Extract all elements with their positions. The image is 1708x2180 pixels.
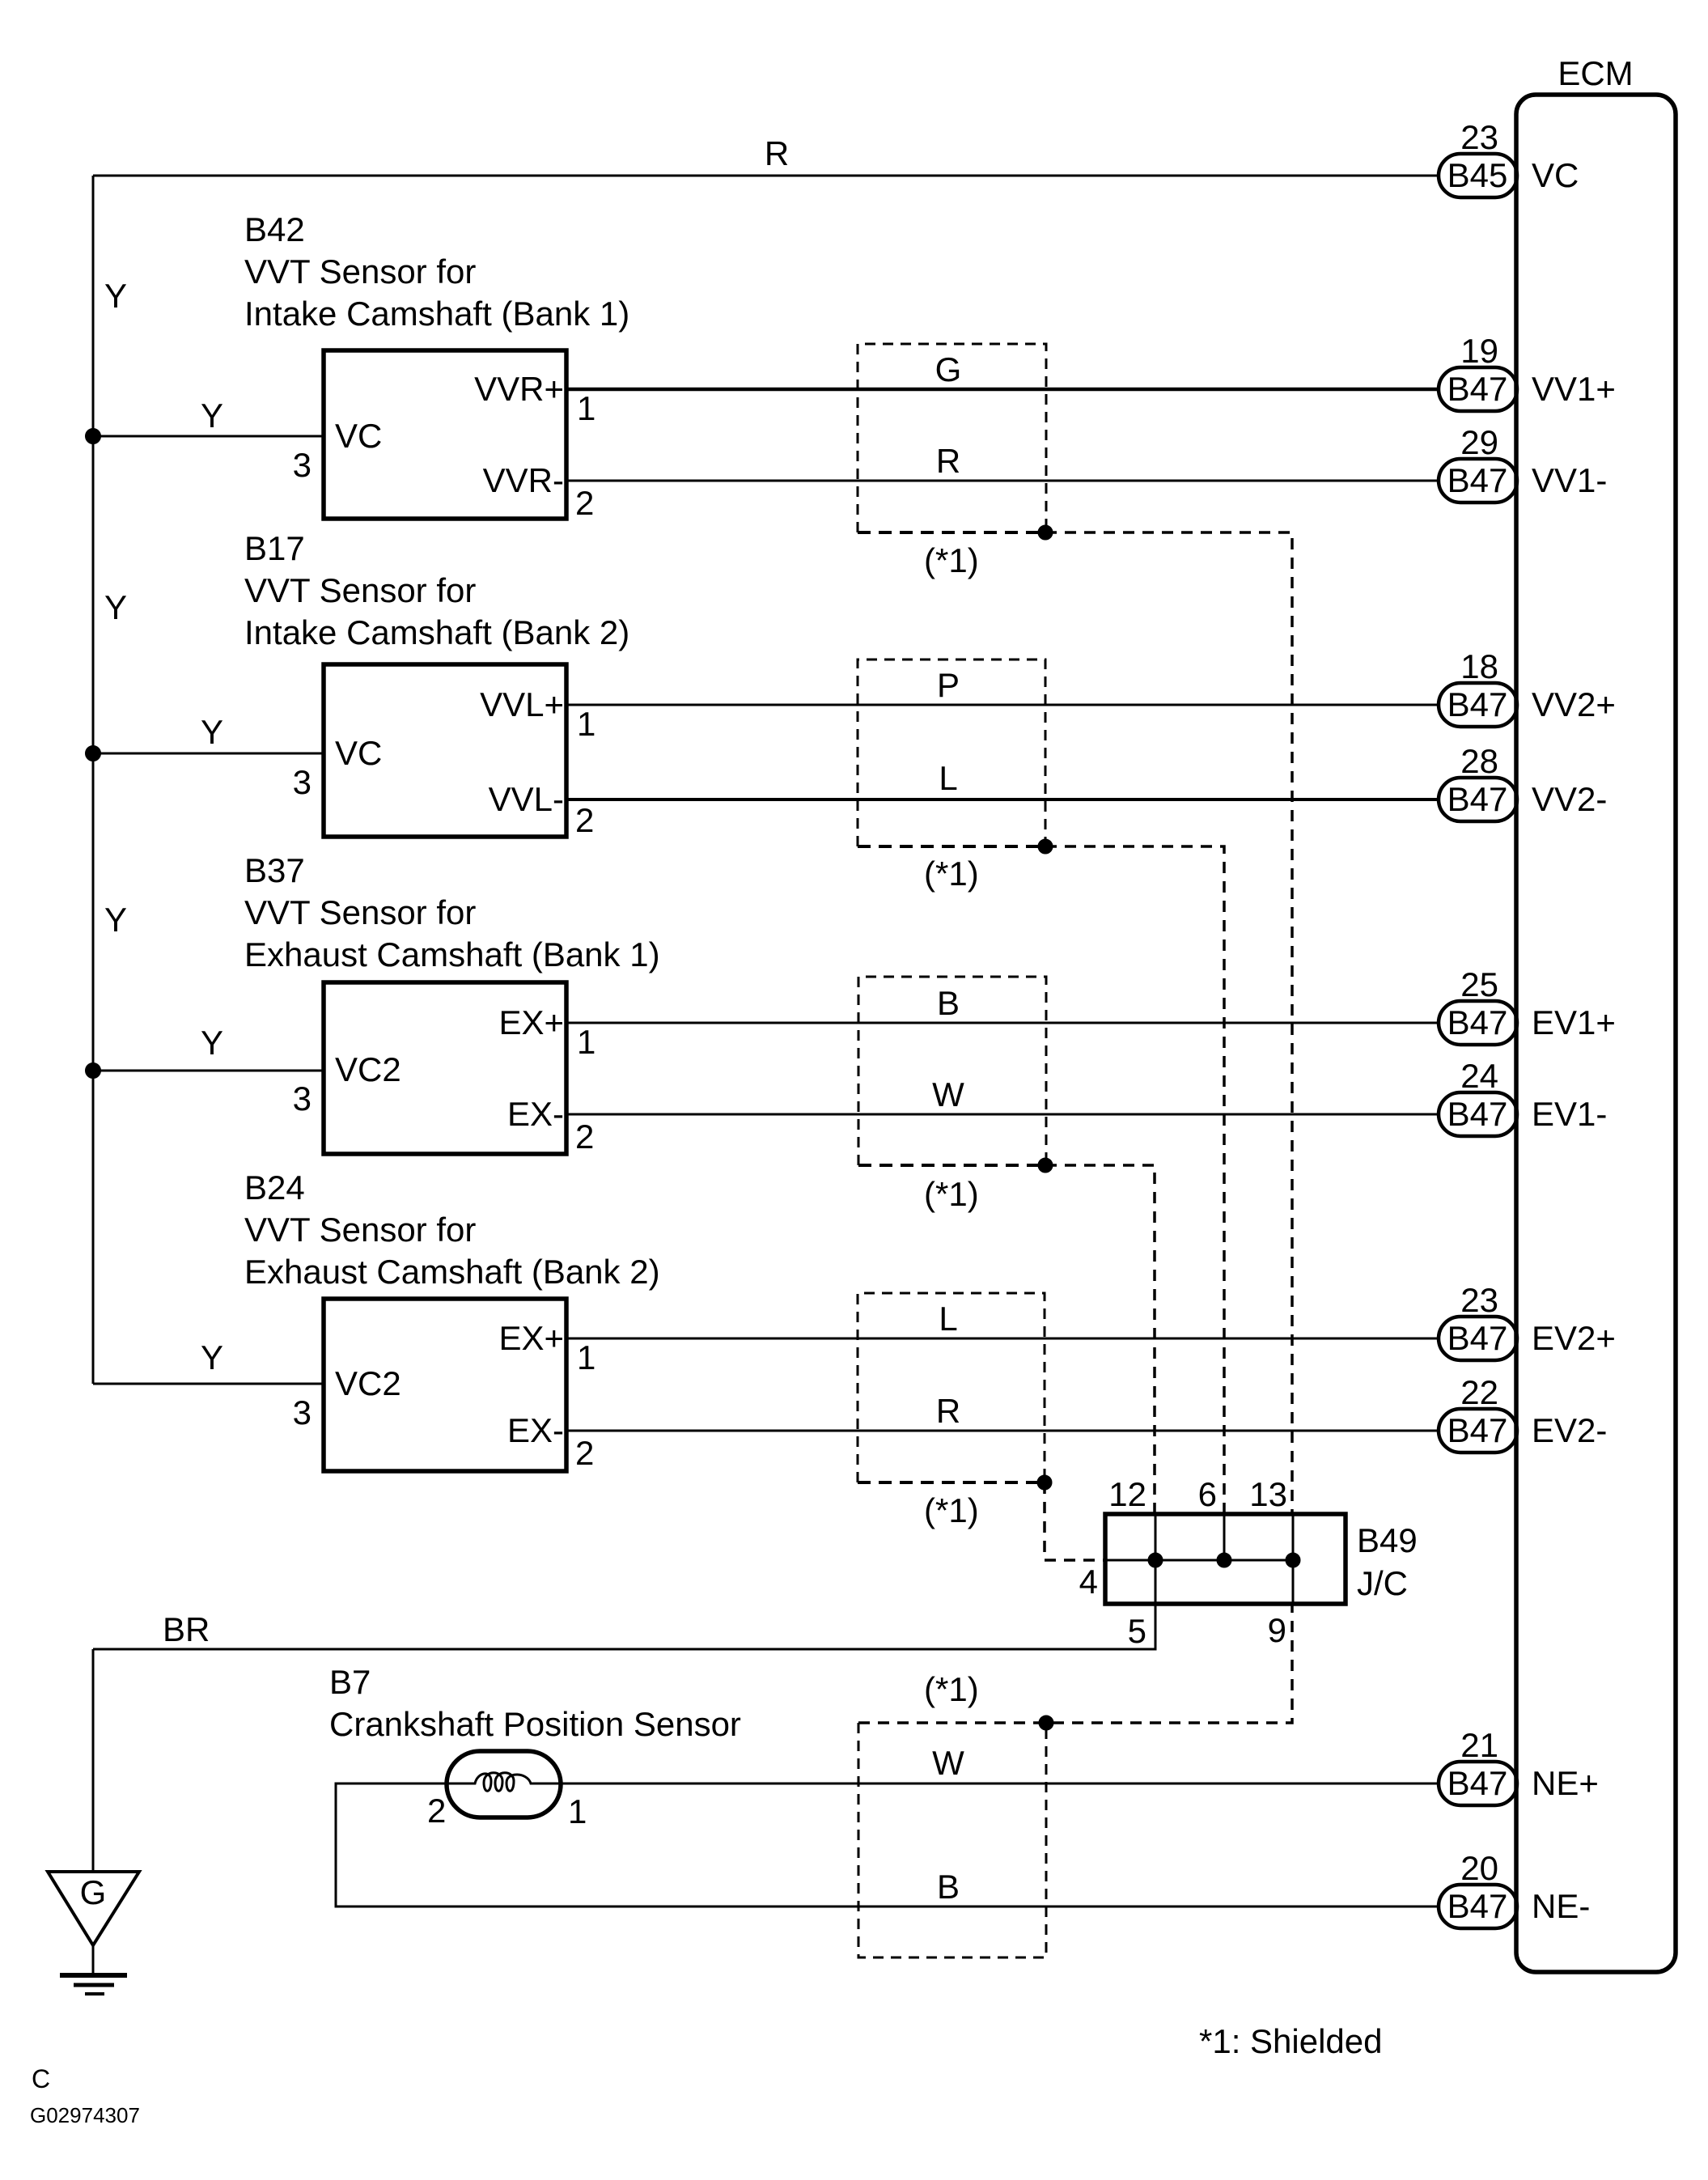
node junction dot at B37 VC branch xyxy=(86,1063,101,1079)
shield (*1) box around B17 wires xyxy=(858,660,1045,846)
svg-text:1: 1 xyxy=(577,1338,595,1376)
svg-text:VV2-: VV2- xyxy=(1532,780,1607,818)
node shield drain dot B17 xyxy=(1038,839,1053,854)
svg-text:28: 28 xyxy=(1460,742,1498,780)
ECM box xyxy=(1516,95,1676,1972)
svg-text:Exhaust Camshaft (Bank 2): Exhaust Camshaft (Bank 2) xyxy=(244,1253,660,1291)
ground symbol stem xyxy=(92,1945,95,1974)
node junction dot at B17 VC branch xyxy=(86,746,101,761)
svg-text:VV2+: VV2+ xyxy=(1532,685,1616,723)
svg-text:B37: B37 xyxy=(244,851,305,889)
svg-text:21: 21 xyxy=(1460,1726,1498,1764)
wire left Y bus vertical xyxy=(92,176,95,1384)
svg-text:VVL-: VVL- xyxy=(489,780,564,818)
svg-text:3: 3 xyxy=(293,446,312,484)
svg-text:B47: B47 xyxy=(1447,685,1508,723)
ground symbol bar 1 xyxy=(60,1973,127,1978)
svg-text:19: 19 xyxy=(1460,332,1498,370)
svg-text:EX-: EX- xyxy=(507,1411,564,1449)
svg-text:B47: B47 xyxy=(1447,1887,1508,1925)
svg-text:NE+: NE+ xyxy=(1532,1764,1599,1802)
svg-text:1: 1 xyxy=(577,705,595,743)
svg-text:(*1): (*1) xyxy=(924,1175,979,1213)
svg-text:EX-: EX- xyxy=(507,1095,564,1133)
svg-text:Y: Y xyxy=(104,588,127,626)
svg-text:VC2: VC2 xyxy=(335,1364,401,1402)
wire R from B42 pin 2 (VVR-) to B47 pin 29 xyxy=(566,480,1439,482)
svg-text:BR: BR xyxy=(163,1610,210,1648)
connector B47 pin 18 (VV2+) xyxy=(1439,683,1517,727)
wire J/C pin 12 vertical xyxy=(1155,1514,1157,1604)
svg-text:B47: B47 xyxy=(1447,461,1508,499)
node shield drain dot B37 xyxy=(1038,1158,1053,1173)
svg-text:5: 5 xyxy=(1128,1612,1146,1650)
connector B47 pin 23 (EV2+) xyxy=(1439,1317,1517,1360)
shield (*1) box around B24 wires xyxy=(858,1293,1045,1482)
svg-text:R: R xyxy=(765,134,789,172)
wire W from crank sensor pin 1 to B47 pin 21 xyxy=(561,1783,1439,1785)
svg-text:VVT Sensor for: VVT Sensor for xyxy=(244,893,476,931)
svg-text:VV1+: VV1+ xyxy=(1532,370,1616,408)
svg-text:J/C: J/C xyxy=(1357,1564,1408,1602)
svg-text:VC: VC xyxy=(335,417,382,455)
wire G from B42 pin 1 (VVR+) to B47 pin 19 xyxy=(566,388,1439,392)
wire L from B24 pin 1 (EX+) to B47 pin 23 xyxy=(566,1338,1439,1340)
svg-text:B42: B42 xyxy=(244,210,305,248)
ground symbol G triangle xyxy=(48,1872,139,1945)
svg-text:VVR+: VVR+ xyxy=(474,370,564,408)
VVT sensor B17 box (Intake Bank 2) xyxy=(324,664,566,837)
node shield drain dot B24 xyxy=(1037,1475,1052,1490)
svg-text:Y: Y xyxy=(201,1338,223,1376)
svg-text:B47: B47 xyxy=(1447,1003,1508,1041)
wire J/C pin 13 to pin 9 vertical xyxy=(1292,1514,1295,1604)
svg-text:3: 3 xyxy=(293,763,312,801)
svg-text:VVT Sensor for: VVT Sensor for xyxy=(244,571,476,609)
connector B47 pin 28 (VV2-) xyxy=(1439,778,1517,821)
svg-text:B49: B49 xyxy=(1357,1521,1418,1559)
svg-text:25: 25 xyxy=(1460,965,1498,1003)
node junction dot at B42 VC branch xyxy=(86,429,101,444)
VVT sensor B42 box (Intake Bank 1) xyxy=(324,350,566,519)
svg-text:VC2: VC2 xyxy=(335,1050,401,1088)
wire P from B17 pin 1 (VVL+) to B47 pin 18 xyxy=(566,704,1439,706)
node J/C dot pin 6 xyxy=(1217,1553,1231,1567)
svg-text:VC: VC xyxy=(335,734,382,772)
svg-text:EX+: EX+ xyxy=(498,1319,564,1357)
wire W from B37 pin 2 (EX-) to B47 pin 24 xyxy=(566,1113,1439,1116)
svg-text:G02974307: G02974307 xyxy=(30,2103,140,2127)
svg-text:VC: VC xyxy=(1532,156,1579,194)
wire ground bus vertical to G symbol xyxy=(92,1649,95,1872)
svg-text:1: 1 xyxy=(568,1792,587,1830)
svg-text:ECM: ECM xyxy=(1558,54,1633,92)
connector B47 pin 24 (EV1-) xyxy=(1439,1092,1517,1136)
svg-text:Y: Y xyxy=(201,397,223,435)
svg-text:W: W xyxy=(932,1075,964,1113)
svg-text:B24: B24 xyxy=(244,1168,305,1207)
svg-text:(*1): (*1) xyxy=(924,1491,979,1529)
svg-text:EV2-: EV2- xyxy=(1532,1411,1607,1449)
wire Y to B42 pin 3 xyxy=(93,435,324,438)
svg-text:20: 20 xyxy=(1460,1849,1498,1887)
crank sensor pickup coil xyxy=(448,1773,559,1792)
wire shield drain B37 to J/C pin 12 (dashed) xyxy=(1045,1165,1155,1514)
crankshaft position sensor B7 body (oval) xyxy=(447,1751,561,1817)
svg-text:R: R xyxy=(936,1392,960,1430)
connector B45 pin 23 (VC) xyxy=(1439,154,1517,197)
connector B47 pin 20 (NE-) xyxy=(1439,1885,1517,1928)
svg-text:B47: B47 xyxy=(1447,1095,1508,1133)
wire shield drain B17 to J/C pin 6 (dashed) xyxy=(1045,846,1224,1514)
wire R from B24 pin 2 (EX-) to B47 pin 22 xyxy=(566,1430,1439,1432)
svg-text:VVT Sensor for: VVT Sensor for xyxy=(244,252,476,291)
node J/C dot pin 13 xyxy=(1286,1553,1300,1567)
svg-text:22: 22 xyxy=(1460,1373,1498,1411)
shield (*1) box around crank sensor wires xyxy=(858,1723,1046,1957)
svg-text:24: 24 xyxy=(1460,1057,1498,1095)
connector B47 pin 19 (VV1+) xyxy=(1439,367,1517,411)
wire Y to B37 pin 3 xyxy=(93,1070,324,1072)
svg-text:3: 3 xyxy=(293,1393,312,1431)
VVT sensor B24 box (Exhaust Bank 2) xyxy=(324,1299,566,1471)
svg-text:L: L xyxy=(939,759,957,797)
ground symbol bar 3 xyxy=(85,1992,104,1996)
svg-text:EV1-: EV1- xyxy=(1532,1095,1607,1133)
svg-text:Intake Camshaft (Bank 2): Intake Camshaft (Bank 2) xyxy=(244,613,629,651)
svg-text:2: 2 xyxy=(575,1118,594,1156)
svg-text:9: 9 xyxy=(1268,1611,1286,1649)
junction connector B49 J/C box xyxy=(1105,1514,1346,1604)
svg-text:1: 1 xyxy=(577,1023,595,1061)
svg-text:P: P xyxy=(937,666,960,704)
svg-text:(*1): (*1) xyxy=(924,1670,979,1708)
wire shield drain B24 to J/C pin 4 (dashed) xyxy=(1045,1482,1105,1560)
svg-text:2: 2 xyxy=(575,1434,594,1472)
svg-text:13: 13 xyxy=(1249,1475,1287,1513)
svg-text:L: L xyxy=(939,1300,957,1338)
svg-text:Y: Y xyxy=(201,713,223,751)
svg-text:3: 3 xyxy=(293,1079,312,1118)
svg-text:Y: Y xyxy=(104,901,127,939)
VVT sensor B37 box (Exhaust Bank 1) xyxy=(324,982,566,1154)
svg-text:EV2+: EV2+ xyxy=(1532,1319,1616,1357)
svg-text:6: 6 xyxy=(1198,1475,1217,1513)
svg-text:B47: B47 xyxy=(1447,1411,1508,1449)
svg-text:C: C xyxy=(32,2064,50,2093)
svg-text:B45: B45 xyxy=(1447,156,1508,194)
svg-text:B47: B47 xyxy=(1447,780,1508,818)
shield (*1) box around B42 wires xyxy=(858,344,1046,532)
svg-text:Y: Y xyxy=(104,277,127,315)
connector B47 pin 21 (NE+) xyxy=(1439,1762,1517,1805)
node shield drain dot crank xyxy=(1039,1716,1053,1730)
svg-text:B47: B47 xyxy=(1447,1319,1508,1357)
svg-text:EX+: EX+ xyxy=(498,1003,564,1041)
svg-text:Intake Camshaft (Bank 1): Intake Camshaft (Bank 1) xyxy=(244,295,629,333)
svg-text:1: 1 xyxy=(577,389,595,427)
svg-text:B47: B47 xyxy=(1447,370,1508,408)
svg-text:Y: Y xyxy=(201,1024,223,1062)
svg-text:EV1+: EV1+ xyxy=(1532,1003,1616,1041)
svg-text:4: 4 xyxy=(1079,1563,1098,1601)
svg-text:B: B xyxy=(937,984,960,1022)
wire J/C pin 6 vertical xyxy=(1223,1514,1226,1560)
svg-text:NE-: NE- xyxy=(1532,1887,1590,1925)
wire BR from ground bus to J/C pin 5 xyxy=(93,1604,1155,1649)
svg-text:VVT Sensor for: VVT Sensor for xyxy=(244,1211,476,1249)
node J/C dot pin 12 xyxy=(1148,1553,1163,1567)
svg-text:*1: Shielded: *1: Shielded xyxy=(1199,2022,1383,2060)
node shield drain dot B42 xyxy=(1038,525,1053,540)
svg-text:B7: B7 xyxy=(329,1663,371,1701)
svg-text:VVL+: VVL+ xyxy=(480,685,564,723)
svg-text:G: G xyxy=(80,1873,107,1911)
svg-text:2: 2 xyxy=(575,484,594,522)
svg-text:G: G xyxy=(935,350,962,388)
svg-text:B47: B47 xyxy=(1447,1764,1508,1802)
wire shield drain B42 to J/C pin 13 (dashed) xyxy=(1045,532,1292,1514)
svg-text:23: 23 xyxy=(1460,118,1498,156)
shield (*1) box around B37 wires xyxy=(858,977,1046,1165)
wire Y to B17 pin 3 xyxy=(93,753,324,755)
svg-text:18: 18 xyxy=(1460,647,1498,685)
svg-text:B: B xyxy=(937,1868,960,1906)
svg-text:(*1): (*1) xyxy=(924,541,979,579)
wire L from B17 pin 2 (VVL-) to B47 pin 28 xyxy=(566,798,1439,801)
wire J/C internal bus xyxy=(1105,1559,1293,1562)
wire R (VC bus top) from left bus to B45 xyxy=(93,175,1439,177)
svg-text:W: W xyxy=(932,1744,964,1782)
svg-text:2: 2 xyxy=(575,801,594,839)
svg-text:29: 29 xyxy=(1460,423,1498,461)
svg-text:23: 23 xyxy=(1460,1281,1498,1319)
svg-text:VV1-: VV1- xyxy=(1532,461,1607,499)
wire shield drain crank to J/C pin 9 (dashed) xyxy=(858,1604,1292,1723)
svg-text:(*1): (*1) xyxy=(924,855,979,893)
svg-text:12: 12 xyxy=(1108,1475,1146,1513)
wire B from crank sensor pin 2 to B47 pin 20 xyxy=(336,1783,1439,1906)
wire Y to B24 pin 3 (bus corner) xyxy=(93,1383,324,1385)
wire B from B37 pin 1 (EX+) to B47 pin 25 xyxy=(566,1022,1439,1024)
ground symbol bar 2 xyxy=(74,1983,114,1987)
svg-text:Exhaust Camshaft (Bank 1): Exhaust Camshaft (Bank 1) xyxy=(244,935,660,973)
svg-text:R: R xyxy=(936,442,960,480)
connector B47 pin 29 (VV1-) xyxy=(1439,459,1517,503)
svg-text:VVR-: VVR- xyxy=(483,461,564,499)
svg-text:Crankshaft Position Sensor: Crankshaft Position Sensor xyxy=(329,1705,741,1743)
svg-text:2: 2 xyxy=(427,1792,446,1830)
connector B47 pin 25 (EV1+) xyxy=(1439,1001,1517,1045)
connector B47 pin 22 (EV2-) xyxy=(1439,1409,1517,1453)
svg-text:B17: B17 xyxy=(244,529,305,567)
